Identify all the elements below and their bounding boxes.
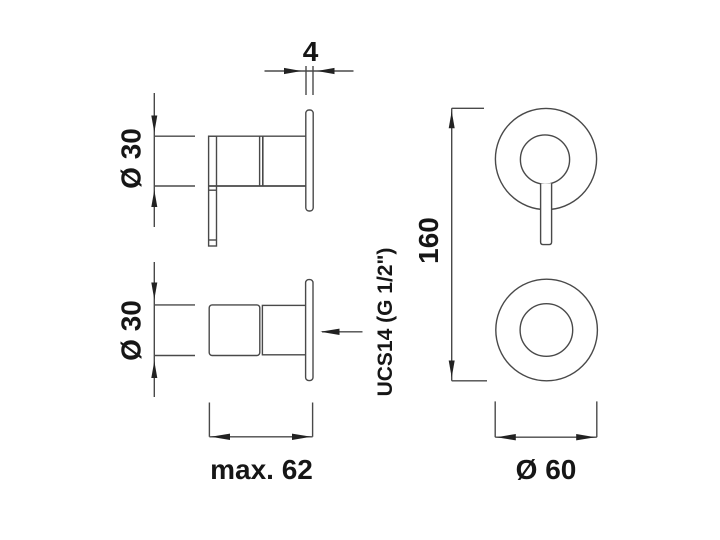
svg-text:Ø 30: Ø 30: [116, 128, 147, 189]
front view top: lever stem: [541, 183, 552, 244]
160 dimension: dimension line: [451, 108, 453, 381]
top side view: lever cross line near tip: [209, 239, 217, 241]
arrowhead right of 4 (pointing left): [317, 68, 335, 74]
dimension line for 4: [265, 70, 354, 72]
max. 62: right arrowhead (pointing right): [292, 434, 311, 440]
bottom side view: knob: [209, 305, 260, 356]
svg-text:Ø 60: Ø 60: [516, 454, 577, 485]
top side view: lever bar: [209, 136, 217, 246]
front view bottom: outer circle: [496, 279, 598, 381]
front view top: lever boss circle: [520, 135, 569, 184]
front view bottom: inner circle: [520, 304, 573, 357]
top side view: body bottom line: [209, 185, 306, 187]
diameter 60: dimension line: [495, 436, 597, 438]
svg-text:4: 4: [303, 36, 319, 67]
svg-text:UCS14 (G 1/2"): UCS14 (G 1/2"): [374, 248, 397, 397]
diameter 60: extension line left: [494, 401, 496, 437]
top side view: body top line: [209, 135, 306, 137]
diameter 30 bottom: down arrowhead: [151, 283, 157, 300]
arrowhead left of 4 (pointing right): [284, 68, 302, 74]
max. 62: dimension line: [209, 436, 312, 438]
bottom side view: wall plate: [306, 280, 313, 381]
diameter 30 top: down arrowhead: [151, 116, 157, 133]
svg-text:160: 160: [413, 217, 444, 264]
extension line right for 4: [312, 66, 314, 95]
extension line left for 4: [305, 66, 307, 95]
diameter 30 bottom: extension line lower: [154, 355, 195, 357]
UCS14 leader line: [322, 331, 363, 333]
diameter 30 bottom: extension line upper: [154, 304, 195, 306]
max. 62: left arrowhead (pointing left): [211, 434, 230, 440]
diameter 30 top: dimension line: [153, 93, 155, 227]
diameter 30 bottom: up arrowhead: [151, 361, 157, 378]
top side view: handle/body divider line 1: [259, 136, 261, 186]
top side view: lever cross line at neck: [209, 189, 217, 191]
diameter 30 top: up arrowhead: [151, 190, 157, 207]
svg-text:max. 62: max. 62: [210, 454, 313, 485]
front view top: outer circle: [495, 108, 596, 209]
top side view: wall plate: [306, 110, 313, 211]
bottom side view: body: [262, 305, 306, 354]
max. 62: extension line right: [312, 403, 314, 437]
diameter 60: right arrowhead (pointing right): [576, 434, 595, 440]
160 dimension: down arrowhead: [449, 361, 455, 378]
diameter 30 top: extension line lower: [154, 185, 195, 187]
diameter 30 bottom: dimension line: [153, 262, 155, 397]
160 dimension: top tick: [452, 107, 484, 109]
160 dimension: up arrowhead: [449, 111, 455, 128]
svg-text:Ø 30: Ø 30: [116, 300, 147, 361]
diameter 60: left arrowhead (pointing left): [497, 434, 516, 440]
diameter 30 top: extension line upper: [154, 135, 195, 137]
160 dimension: bottom tick: [452, 380, 487, 382]
top side view: handle/body divider line 2: [262, 136, 264, 186]
UCS14 leader arrowhead (pointing left): [320, 329, 339, 335]
diameter 60: extension line right: [596, 401, 598, 437]
max. 62: extension line left: [208, 403, 210, 437]
